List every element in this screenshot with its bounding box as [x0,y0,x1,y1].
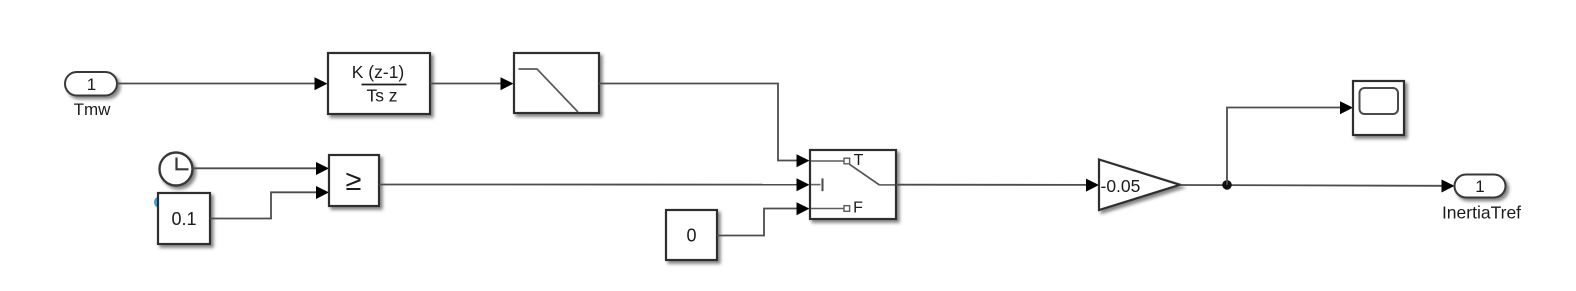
discrete derivative block K(z-1)/Ts z [328,53,430,114]
svg-text:≥: ≥ [346,165,362,197]
svg-text:0: 0 [686,226,696,246]
svg-text:1: 1 [87,75,96,94]
switch block [810,150,896,219]
svg-text:1: 1 [1475,177,1484,196]
wire clock to relational operator [193,162,330,175]
inport Tmw [65,72,117,119]
switch output stub [880,184,896,186]
wire relational operator to switch control [379,178,810,191]
gain -0.05 [1099,160,1180,211]
wire inport to derivative [117,77,328,90]
switch arm diagonal [850,164,880,185]
svg-text:T: T [854,152,864,169]
wire constant 0.1 to relational operator [210,186,329,219]
relational operator >= [329,155,379,206]
wire constant 0 to switch F input [717,202,810,235]
svg-text:InertiaTref: InertiaTref [1442,203,1521,223]
switch T port line [811,160,844,162]
junction dot [1222,180,1232,190]
switch T port square [844,158,850,164]
scope [1353,81,1404,135]
wire lowpass to switch T input [599,84,810,168]
switch F port line [811,208,844,210]
wire gain to outport [1180,180,1455,193]
svg-text:0.1: 0.1 [171,209,196,229]
constant 0.1 [158,193,210,244]
switch control stub [811,184,821,186]
wire derivative to lowpass [430,77,514,90]
wire switch to gain [896,179,1099,192]
switch F port square [844,206,850,212]
wire junction to scope [1227,101,1353,185]
svg-text:Tmw: Tmw [74,100,112,119]
switch control tick [822,178,824,191]
constant 0 [666,210,717,260]
lowpass filter block [514,53,599,113]
clock [160,153,193,186]
svg-text:F: F [853,200,863,217]
logging badge on constant 0.1 [155,198,164,207]
outport InertiaTref [1442,175,1521,223]
svg-text:K (z-1): K (z-1) [352,62,405,82]
svg-text:Ts z: Ts z [366,86,397,106]
svg-text:-0.05: -0.05 [1101,176,1141,196]
